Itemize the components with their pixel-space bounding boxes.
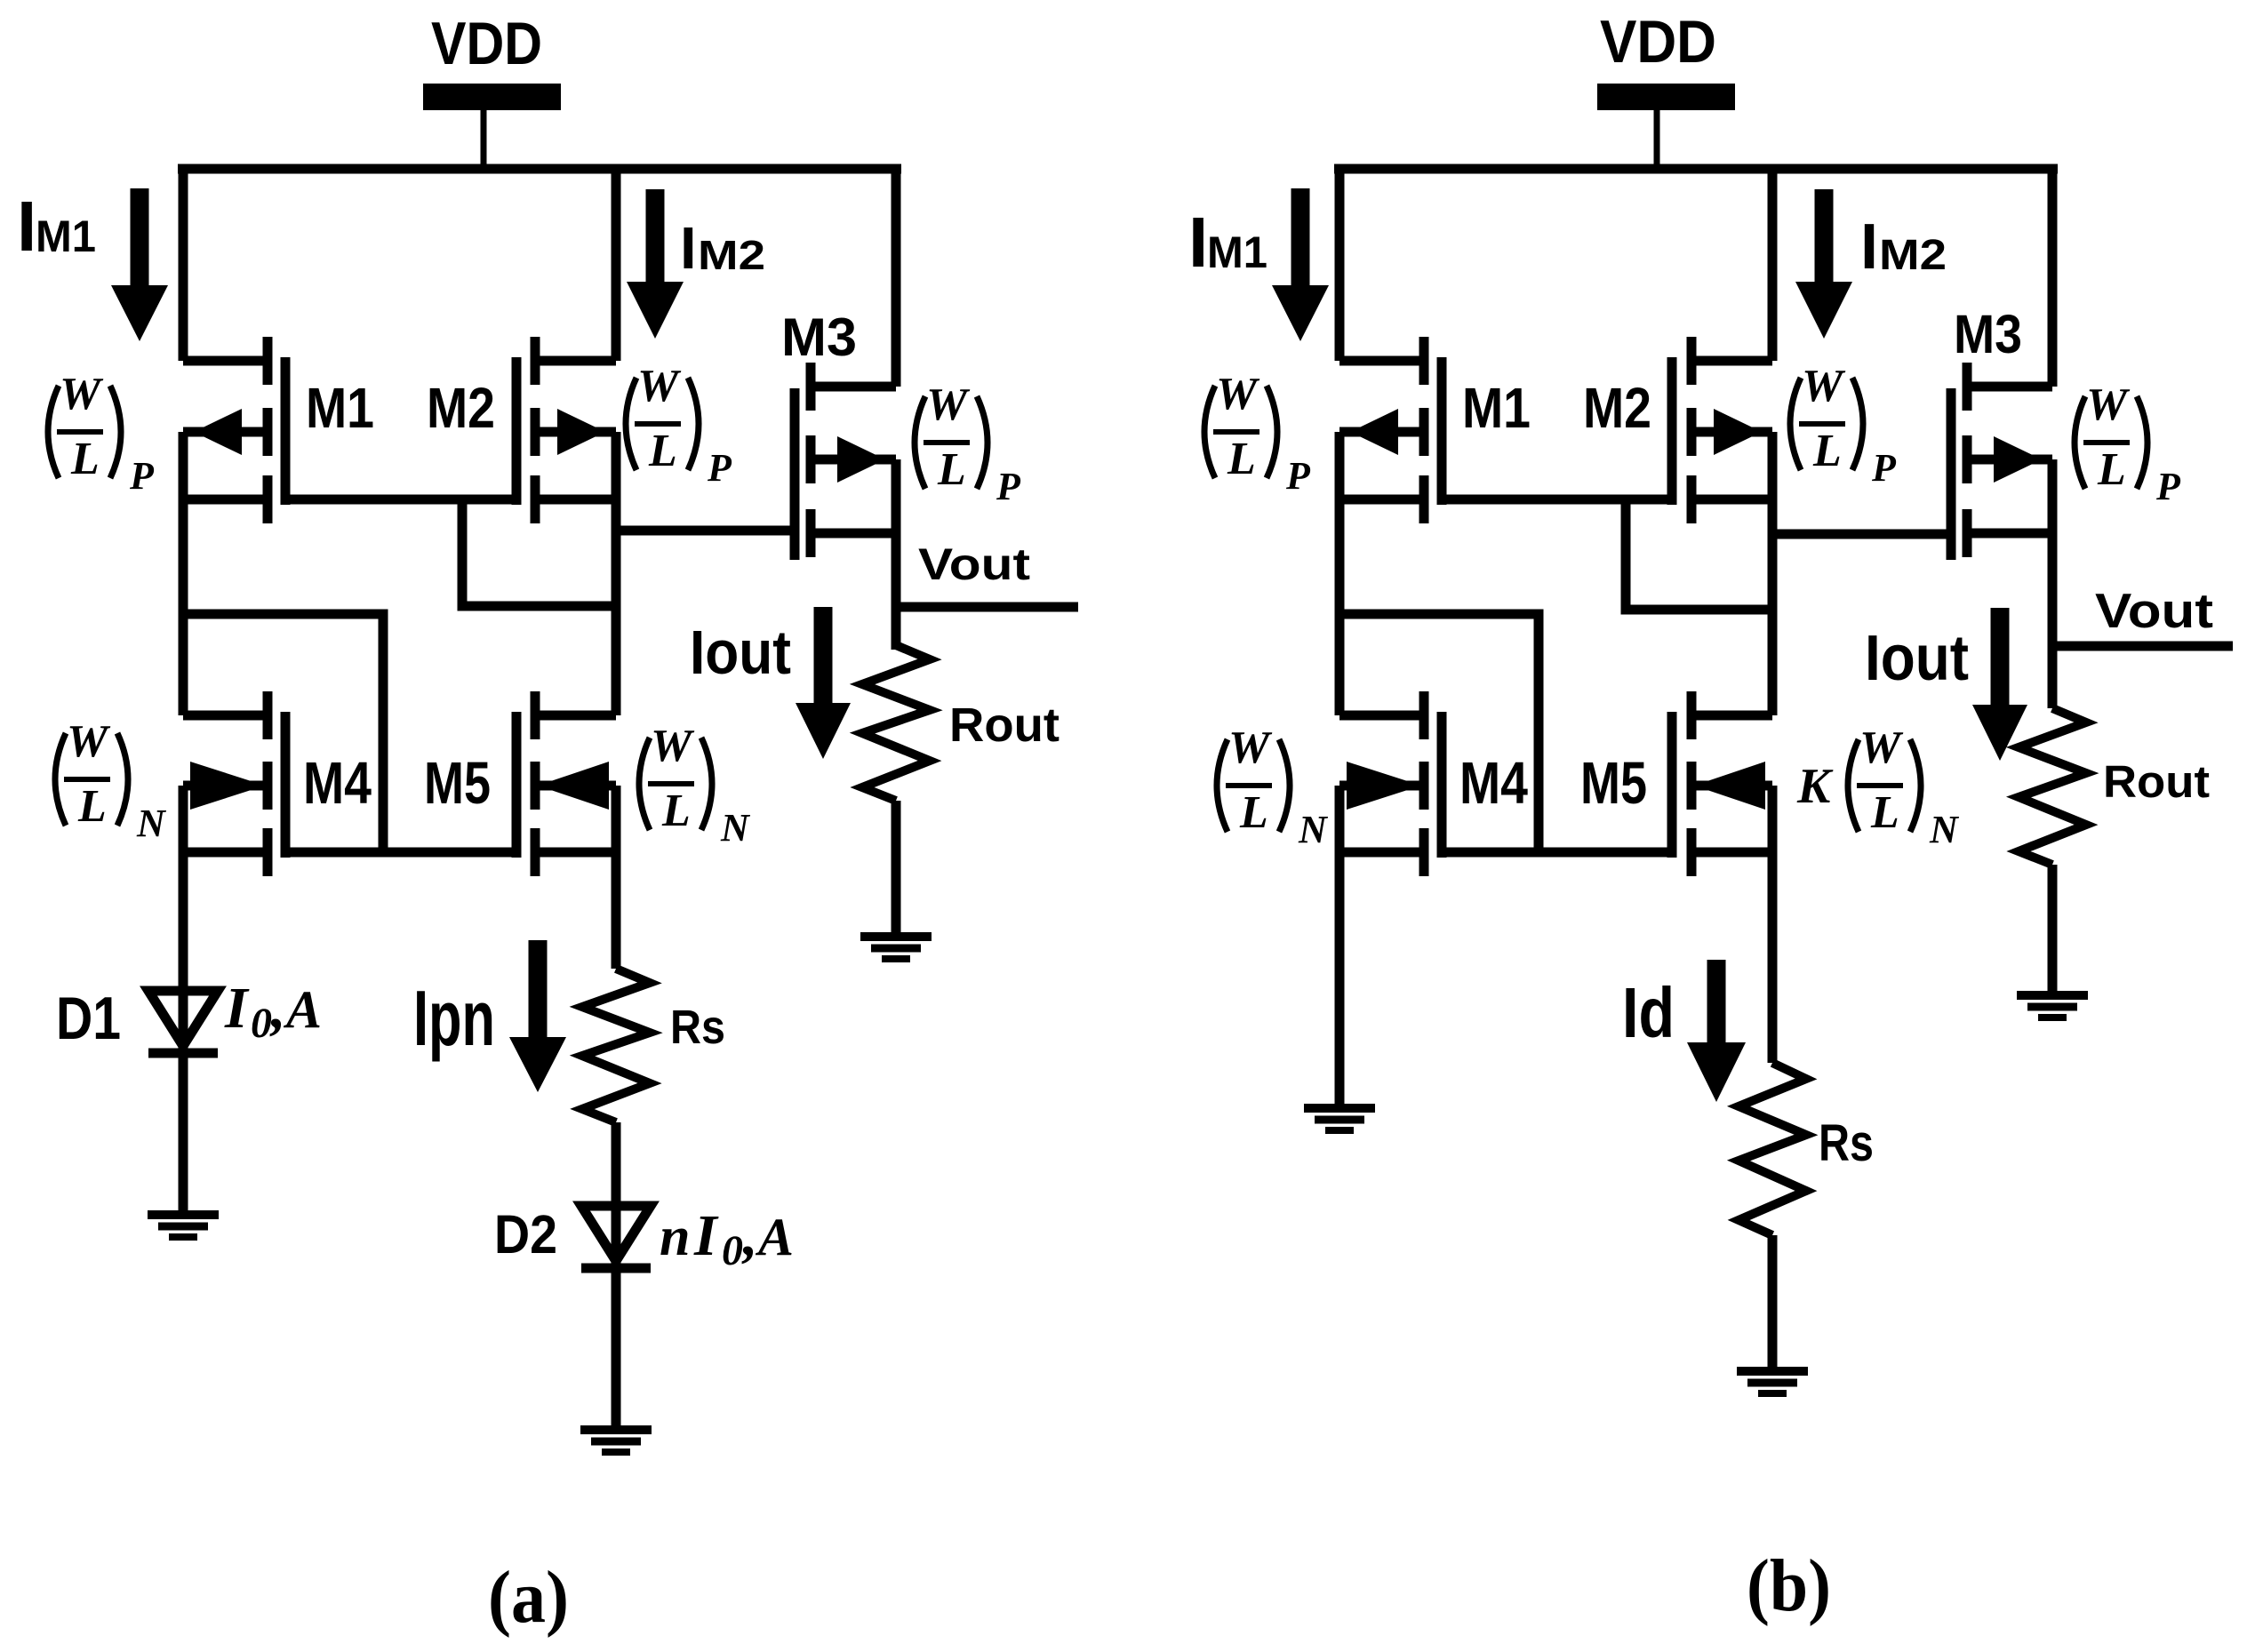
svg-text:D1: D1 [56,985,121,1052]
svg-text:P: P [1285,454,1311,498]
wire M2 drain column (b) [1768,432,1778,715]
svg-text:L: L [937,444,966,495]
svg-text:I: I [680,215,697,282]
svg-text:L: L [648,426,677,476]
svg-text:Vout: Vout [918,539,1030,589]
svg-text:M5: M5 [1580,750,1647,817]
wire M2 drain column (a) [612,432,621,715]
svg-text:I: I [17,187,36,266]
resistor Rout (a) [862,645,930,801]
current arrow Ipn (a) [509,940,566,1092]
svg-text:M3: M3 [1954,304,2022,364]
svg-text:N: N [136,802,167,845]
svg-text:M5: M5 [424,750,491,817]
label (W/L)P for M1 (a) [48,369,155,498]
current arrow IM1 (b) [1272,188,1329,341]
diode D2 [581,1206,651,1268]
svg-text:Rs: Rs [1819,1114,1874,1172]
svg-text:N: N [720,806,751,850]
svg-text:L: L [77,781,107,832]
current arrow Iout (b) [1972,608,2027,761]
svg-text:M2: M2 [698,232,765,278]
svg-text:W: W [67,716,111,767]
transistor M5 (a) NMOS [516,691,616,876]
svg-text:0: 0 [722,1227,743,1274]
transistor M5 (b) NMOS [1672,691,1772,876]
svg-text:M1: M1 [1462,376,1531,440]
label (W/L)P for M3 (b) [2075,379,2181,508]
wire M1-M2 gate net (a) [285,495,516,505]
ground below M4 (b) [1304,1108,1375,1130]
wire M2 source column (b) [1768,164,1778,361]
svg-text:W: W [1802,361,1846,411]
current arrow Iout (a) [796,607,851,759]
wire M4 source to diode D1 (a) [179,786,188,1210]
transistor M2 (a) PMOS [516,337,616,523]
ground below Rs (b) [1737,1371,1808,1393]
svg-text:Rout: Rout [2103,756,2210,807]
svg-text:(a): (a) [488,1556,569,1639]
svg-text:W: W [637,361,682,411]
svg-text:0: 0 [251,1000,272,1047]
svg-text:W: W [1859,722,1904,773]
current label IM2 (a) [680,215,765,282]
svg-text:M2: M2 [1879,232,1947,279]
label (W/L)N for M4 (b) [1217,722,1329,851]
svg-text:P: P [129,454,155,498]
diode D1 [148,991,218,1053]
wire Rs to diode D2 (a) [612,1122,621,1425]
label (W/L)P for M3 (a) [915,379,1021,508]
ground below Rout (a) [860,937,932,959]
svg-text:M3: M3 [781,307,857,367]
wire Rout to ground (a) [892,801,901,936]
svg-text:VDD: VDD [1600,8,1716,76]
svg-text:M1: M1 [306,376,374,440]
transistor M1 (a) PMOS [183,337,285,523]
resistor Rout (b) [2019,708,2086,865]
svg-text:I: I [693,1203,719,1268]
wire M3 drain to Vout node (a) [892,459,901,650]
wire M3 source column (b) [2048,164,2058,387]
svg-text:N: N [1929,808,1960,851]
svg-text:W: W [651,721,695,771]
svg-text:A: A [283,980,322,1039]
svg-text:,: , [741,1203,758,1268]
resistor Rs (a) [582,969,650,1122]
power symbol VDD (a) [423,10,561,169]
svg-text:W: W [1216,369,1260,419]
ground below Rout (b) [2017,995,2088,1018]
svg-text:W: W [1228,722,1273,773]
wire M4-M5 gate net (b) [1442,848,1672,858]
wire M1 source column (b) [1335,164,1345,361]
current arrow IM2 (a) [627,189,684,339]
wire M5 source to Rs (a) [612,786,621,969]
svg-text:N: N [1298,808,1329,851]
node Vout wire (b) [2052,642,2233,651]
svg-text:Id: Id [1622,973,1675,1052]
wire M2 gate-drain tap (b) [1626,499,1772,610]
svg-text:K: K [1796,759,1834,814]
node Vout wire (a) [896,603,1078,612]
svg-text:Iout: Iout [1865,623,1969,694]
wire M3 gate net (a) [616,526,795,536]
svg-text:Rs: Rs [670,1001,725,1054]
current arrow IM2 (b) [1795,189,1852,339]
transistor M3 (b) PMOS [1951,363,2052,560]
svg-text:M2: M2 [1583,376,1651,440]
ground below D2 (a) [580,1430,652,1452]
transistor M4 (b) NMOS [1339,691,1442,876]
wire M1 drain column (a) [179,432,188,715]
current label IM2 (b) [1860,211,1947,283]
svg-text:P: P [1871,446,1897,490]
wire VDD rail (a) [178,164,901,174]
wire M4 source to ground (b) [1335,786,1345,1107]
transistor M4 (a) NMOS [183,691,285,876]
label (W/L)N for M5 (a) [639,721,751,850]
wire M1 drain to M4/M5 gate net (a) [183,614,383,852]
svg-text:W: W [60,369,104,419]
svg-text:M1: M1 [36,211,96,261]
wire M5 source to Rs (b) [1768,786,1778,1063]
svg-text:L: L [1870,787,1899,838]
wire M3 gate net (b) [1772,530,1951,539]
label nI0,A for D2 [660,1203,794,1274]
wire M3 drain to Vout node (b) [2048,459,2058,708]
svg-text:Vout: Vout [2095,583,2213,638]
wire M1-M2 gate net (b) [1442,495,1672,505]
label (W/L)P for M2 (b) [1790,361,1897,490]
svg-text:L: L [1239,787,1268,838]
svg-text:P: P [996,465,1021,508]
wire Rs to ground (b) [1768,1235,1778,1370]
transistor M1 (b) PMOS [1339,337,1442,523]
svg-text:L: L [1227,434,1256,484]
power symbol VDD (b) [1597,8,1735,169]
label I0,A for D1 [224,976,322,1047]
svg-text:M4: M4 [303,750,372,817]
wire M1 drain to M4/M5 gate net (b) [1339,614,1539,852]
svg-text:A: A [755,1208,794,1266]
svg-text:I: I [1188,203,1208,282]
svg-text:M2: M2 [427,376,495,440]
svg-text:Ipn: Ipn [413,974,495,1062]
svg-text:n: n [660,1207,690,1267]
svg-text:M1: M1 [1207,227,1267,277]
transistor M3 (a) PMOS [795,363,896,560]
label (W/L)P for M1 (b) [1204,369,1311,498]
current label IM1 (a) [17,187,96,266]
svg-text:Iout: Iout [690,618,791,687]
svg-text:D2: D2 [494,1204,557,1265]
current arrow Id (b) [1687,960,1746,1102]
svg-text:,: , [269,976,286,1041]
svg-text:P: P [707,446,732,490]
svg-text:I: I [1860,211,1878,283]
label (W/L)N for M4 (a) [55,716,167,845]
wire M2 source column (a) [612,164,621,361]
current arrow IM1 (a) [111,188,168,341]
transistor M2 (b) PMOS [1672,337,1772,523]
wire M2 gate-drain tap (a) [462,499,616,606]
svg-text:VDD: VDD [431,10,542,77]
wire Rout to ground (b) [2048,865,2058,994]
svg-text:L: L [70,434,100,484]
svg-text:L: L [661,786,691,836]
wire M4-M5 gate net (a) [285,848,516,858]
ground below D1 (a) [148,1215,219,1237]
svg-text:W: W [2086,379,2131,430]
svg-text:Rout: Rout [949,698,1060,752]
svg-text:I: I [224,976,250,1041]
svg-text:L: L [2097,444,2126,495]
svg-text:W: W [926,379,971,430]
label (W/L)P for M2 (a) [626,361,732,490]
svg-text:(b): (b) [1747,1544,1831,1627]
wire M3 source column (a) [892,164,901,387]
current label IM1 (b) [1188,203,1267,282]
svg-text:L: L [1812,426,1842,476]
wire M1 source column (a) [179,164,188,361]
wire M1 drain column (b) [1335,432,1345,715]
svg-text:P: P [2155,465,2181,508]
label (W/L)N fraction for M5 (b) [1848,722,1960,851]
wire VDD rail (b) [1334,164,2058,174]
svg-text:M4: M4 [1459,750,1528,817]
resistor Rs (b) [1739,1063,1806,1235]
